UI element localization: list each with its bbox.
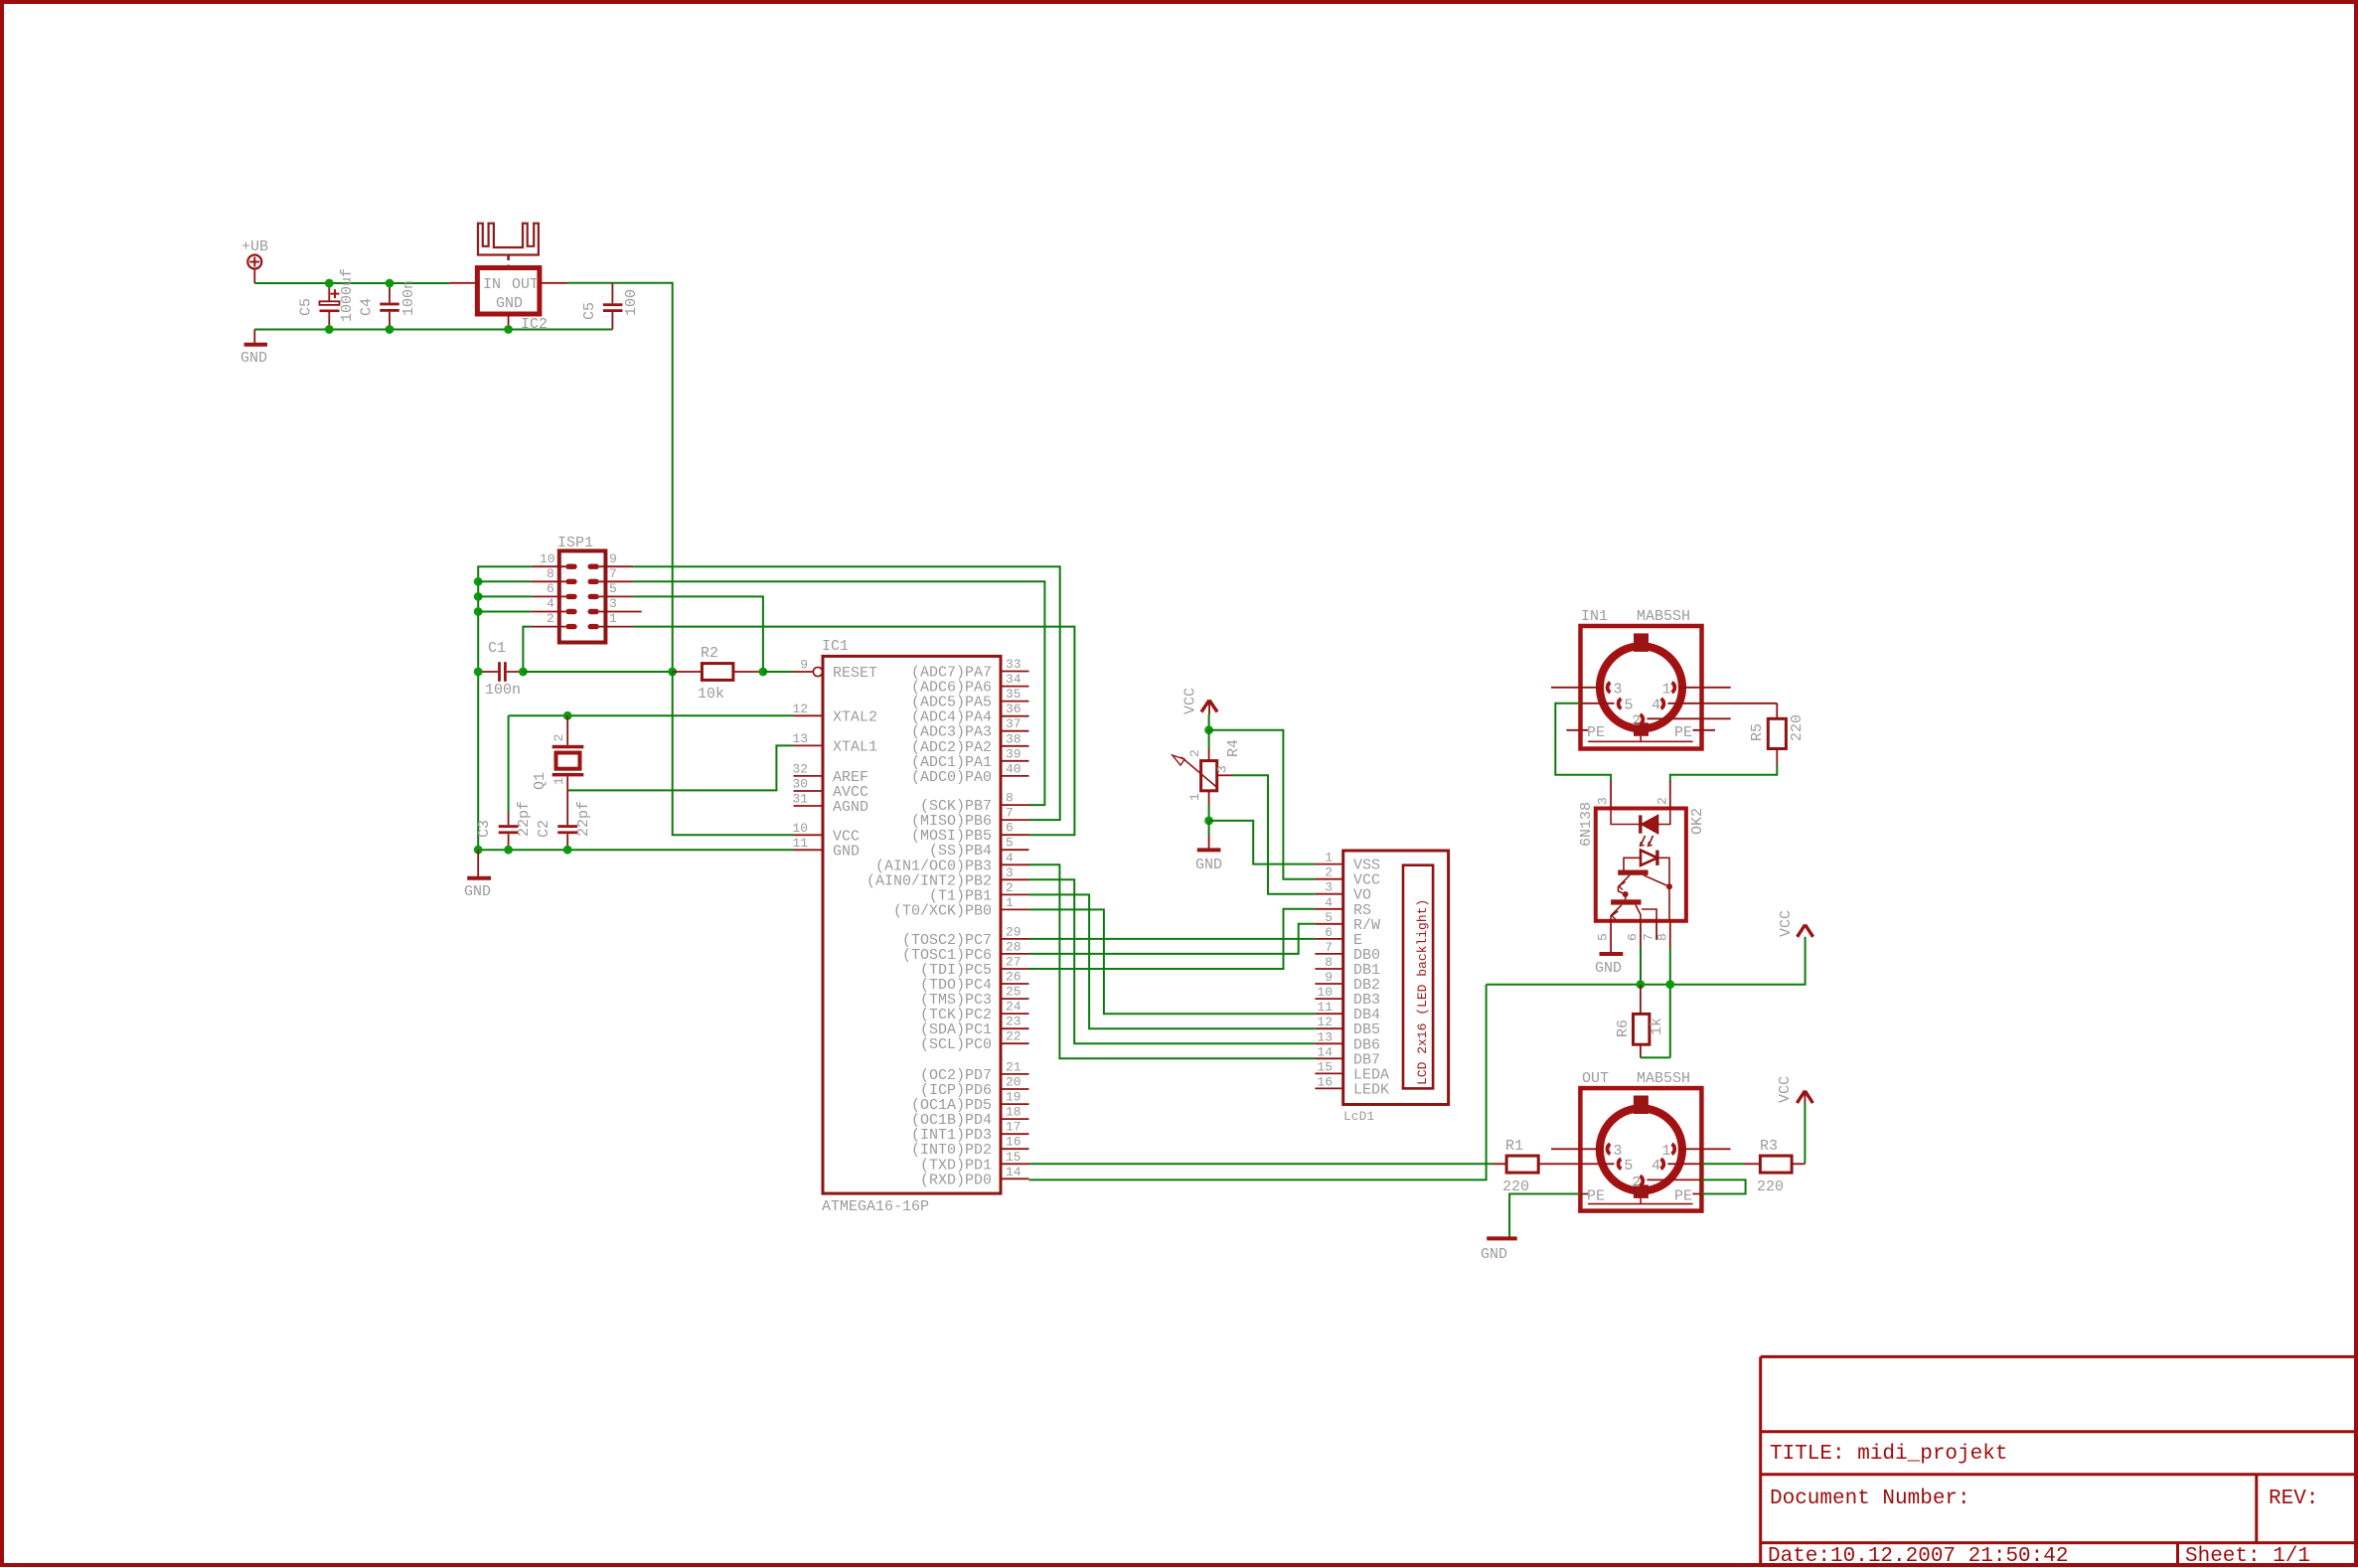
supply terminal +UB	[241, 238, 268, 283]
heatsink above IC2	[478, 224, 539, 268]
svg-text:RESET: RESET	[833, 665, 877, 682]
supply arrow VCC right of optocoupler	[1778, 910, 1813, 937]
svg-text:LEDK: LEDK	[1353, 1081, 1389, 1098]
wire regulator OUT to VCC corner	[567, 283, 673, 672]
svg-text:5: 5	[1325, 910, 1333, 925]
svg-text:Date:10.12.2007 21:50:42: Date:10.12.2007 21:50:42	[1768, 1545, 2068, 1568]
svg-text:8: 8	[1325, 955, 1333, 970]
svg-text:29: 29	[1006, 924, 1022, 939]
svg-text:17: 17	[1006, 1120, 1022, 1135]
svg-text:IC1: IC1	[822, 638, 849, 655]
ground symbol optocoupler pin5	[1595, 947, 1623, 977]
resistor R3 220	[1701, 1138, 1805, 1195]
svg-text:2: 2	[1325, 865, 1333, 880]
svg-text:12: 12	[792, 702, 808, 716]
svg-text:22: 22	[1006, 1029, 1022, 1044]
svg-text:PE: PE	[1674, 724, 1692, 741]
junction dot R4 VCC	[1204, 725, 1213, 734]
wire TXD to R1	[1029, 1163, 1493, 1165]
optocoupler OK2 6N138	[1578, 781, 1706, 947]
svg-text:TITLE: midi_projekt: TITLE: midi_projekt	[1770, 1443, 2007, 1466]
wire GND rail top-left	[254, 329, 612, 331]
wire VCC column to IC1 VCC pin	[673, 672, 794, 835]
svg-text:23: 23	[1006, 1015, 1022, 1029]
svg-text:37: 37	[1006, 716, 1022, 731]
wire IN1 pin5 to optocoupler anode	[1555, 704, 1611, 782]
svg-text:6: 6	[1325, 925, 1333, 940]
connector IN1 MAB5SH	[1551, 608, 1777, 749]
title text Document Number	[1770, 1488, 1970, 1510]
junction dots C4	[386, 279, 394, 334]
svg-text:C5: C5	[298, 298, 315, 316]
wire RXD to output net	[1029, 985, 1487, 1180]
svg-text:220: 220	[1757, 1178, 1784, 1195]
junction dot VCC RESET	[668, 668, 677, 677]
svg-text:12: 12	[1317, 1015, 1333, 1029]
junction dots output net	[1637, 980, 1675, 989]
svg-text:24: 24	[1006, 1000, 1022, 1015]
wire XTAL2 net	[509, 715, 794, 813]
capacitor C3 22pf	[476, 801, 533, 850]
svg-text:PE: PE	[1587, 1188, 1605, 1205]
svg-text:(T0/XCK)PB0: (T0/XCK)PB0	[893, 902, 992, 919]
junction dot R4 GND	[1204, 817, 1213, 826]
wire R4 bottom to LCD VSS	[1209, 821, 1316, 864]
svg-text:10: 10	[540, 551, 555, 566]
voltage regulator IC2	[449, 268, 567, 334]
svg-text:18: 18	[1006, 1105, 1022, 1120]
wire ISP pin2 to C1	[523, 627, 531, 672]
svg-text:GND: GND	[833, 843, 860, 860]
svg-text:10: 10	[792, 821, 808, 836]
svg-text:220: 220	[1789, 714, 1806, 741]
svg-text:VCC: VCC	[1777, 1076, 1794, 1103]
svg-text:2: 2	[1632, 713, 1641, 730]
svg-text:2: 2	[1006, 880, 1014, 895]
wire VCC to LCD pin2	[1209, 730, 1316, 879]
svg-text:4: 4	[1325, 895, 1333, 910]
junction dot regulator GND	[504, 325, 513, 334]
svg-text:MAB5SH: MAB5SH	[1637, 608, 1690, 625]
wire R5 to optocoupler cathode	[1670, 765, 1778, 782]
junction dot crystal XTAL2	[563, 711, 572, 720]
wire PB0 to LCD DB4	[1029, 909, 1316, 1014]
supply arrow VCC at OUT	[1777, 1076, 1812, 1103]
svg-text:XTAL1: XTAL1	[833, 738, 877, 755]
junction dots GND rail	[474, 846, 572, 855]
svg-text:20: 20	[1006, 1075, 1022, 1090]
svg-text:R2: R2	[701, 645, 718, 662]
svg-text:ATMEGA16-16P: ATMEGA16-16P	[822, 1198, 929, 1215]
svg-text:8: 8	[1006, 791, 1014, 806]
svg-text:3: 3	[1614, 681, 1623, 698]
crystal Q1	[532, 715, 583, 825]
svg-text:3: 3	[1215, 765, 1230, 773]
connector ISP1	[532, 535, 642, 643]
svg-text:6N138: 6N138	[1578, 802, 1595, 847]
svg-text:1: 1	[1662, 681, 1671, 698]
svg-text:9: 9	[800, 658, 808, 673]
svg-text:XTAL2: XTAL2	[833, 708, 877, 725]
svg-text:8: 8	[1655, 933, 1670, 941]
svg-text:2: 2	[1187, 749, 1202, 757]
wire PB1 to LCD DB5	[1029, 894, 1316, 1028]
wire optocoupler pin8 to R6 bottom	[1641, 947, 1670, 1057]
svg-text:AGND: AGND	[833, 799, 868, 816]
wire XTAL1 net	[567, 745, 793, 790]
svg-text:27: 27	[1006, 955, 1022, 970]
ground symbol top-left	[240, 330, 267, 368]
wire C1 to R2	[523, 671, 672, 673]
svg-text:(ADC0)PA0: (ADC0)PA0	[911, 769, 992, 786]
svg-text:1: 1	[1325, 851, 1333, 865]
svg-text:5: 5	[1596, 933, 1611, 941]
svg-text:26: 26	[1006, 970, 1022, 985]
svg-text:GND: GND	[1195, 857, 1222, 873]
svg-text:16: 16	[1006, 1135, 1022, 1150]
wire ISP pin9 to MISO	[633, 566, 1059, 820]
svg-text:22pf: 22pf	[575, 801, 592, 837]
svg-text:3: 3	[1325, 880, 1333, 895]
resistor R6 1k	[1615, 985, 1665, 1058]
svg-text:7: 7	[1325, 940, 1333, 955]
wire PC6 to LCD R/W	[1029, 924, 1316, 954]
svg-text:1: 1	[1661, 1143, 1670, 1160]
svg-text:7: 7	[609, 566, 617, 581]
wire ISP pin5 to RESET	[633, 596, 763, 672]
svg-text:PE: PE	[1587, 724, 1605, 741]
svg-text:LCD 2x16 (LED backlight): LCD 2x16 (LED backlight)	[1415, 899, 1430, 1085]
wire ISP pin6	[478, 595, 532, 597]
ground symbol below rail	[464, 850, 491, 900]
svg-text:39: 39	[1006, 746, 1022, 761]
svg-text:3: 3	[609, 596, 617, 611]
svg-text:40: 40	[1006, 761, 1022, 776]
svg-text:5: 5	[609, 581, 617, 596]
svg-text:R1: R1	[1505, 1138, 1523, 1155]
supply arrow VCC at R4	[1182, 688, 1218, 714]
svg-text:15: 15	[1006, 1150, 1022, 1165]
svg-text:9: 9	[609, 551, 617, 566]
svg-text:31: 31	[792, 792, 808, 807]
resistor R2 10k	[673, 645, 763, 703]
svg-text:R3: R3	[1760, 1138, 1778, 1155]
svg-text:Document Number:: Document Number:	[1770, 1488, 1970, 1510]
svg-text:7: 7	[1642, 933, 1656, 941]
ground symbol below OUT	[1481, 1238, 1517, 1263]
capacitor C5 100 at regulator output	[581, 283, 640, 330]
wire PC5 to LCD RS	[1029, 909, 1316, 969]
svg-text:11: 11	[792, 836, 808, 851]
svg-text:2: 2	[1655, 797, 1670, 805]
svg-text:5: 5	[1625, 698, 1634, 714]
svg-text:2: 2	[1632, 1175, 1641, 1191]
svg-text:22pf: 22pf	[516, 801, 533, 837]
ground symbol at R4	[1195, 821, 1222, 873]
wire OUT pin2 to PE	[1701, 1179, 1745, 1193]
wire OUT PE to ground	[1509, 1194, 1580, 1238]
svg-text:100: 100	[623, 289, 640, 316]
svg-text:25: 25	[1006, 985, 1022, 1000]
capacitor C2 22pf	[536, 801, 592, 850]
junction dots C1	[474, 668, 528, 677]
title text TITLE: midi_projekt	[1770, 1443, 2007, 1466]
svg-text:14: 14	[1006, 1165, 1022, 1179]
svg-text:3: 3	[1613, 1143, 1622, 1160]
svg-text:GND: GND	[1481, 1246, 1507, 1263]
svg-text:21: 21	[1006, 1059, 1022, 1074]
capacitor C4 100n	[359, 280, 418, 330]
svg-text:ISP1: ISP1	[557, 535, 593, 551]
LCD module LCD1	[1315, 851, 1448, 1124]
wire GND rail to IC1 GND pin	[478, 849, 793, 851]
resistor R1 220	[1493, 1138, 1580, 1195]
svg-text:MAB5SH: MAB5SH	[1637, 1070, 1690, 1087]
svg-text:10: 10	[1317, 985, 1333, 1000]
wire R4 wiper to LCD VO	[1217, 775, 1316, 893]
svg-text:2: 2	[547, 611, 554, 626]
wire VCC arrow to junction	[1208, 714, 1210, 730]
svg-text:GND: GND	[1595, 960, 1622, 977]
svg-text:IN1: IN1	[1581, 608, 1608, 625]
title text Sheet	[2185, 1545, 2310, 1568]
resistor R5 220	[1749, 704, 1806, 765]
title block frame	[1761, 1356, 2354, 1564]
wire ISP pin1 to MOSI	[633, 627, 1074, 836]
svg-text:C5: C5	[581, 302, 598, 320]
svg-text:4: 4	[1651, 1158, 1660, 1175]
wire PB3 to LCD DB7	[1029, 864, 1316, 1058]
svg-text:6: 6	[547, 581, 554, 596]
svg-text:(SCL)PC0: (SCL)PC0	[920, 1036, 992, 1053]
svg-text:36: 36	[1006, 702, 1022, 716]
wire optocoupler pin6 to output net	[1640, 947, 1642, 985]
svg-text:1k: 1k	[1649, 1018, 1665, 1035]
svg-text:4: 4	[547, 596, 554, 611]
wire ISP pin7 to SCK	[633, 581, 1044, 805]
svg-text:GND: GND	[464, 883, 491, 900]
wire +UB rail to regulator IN	[254, 282, 449, 284]
svg-text:100n: 100n	[400, 280, 417, 316]
wire output net RXD row	[1487, 937, 1806, 985]
capacitor C1 100n	[478, 640, 523, 699]
svg-text:16: 16	[1317, 1074, 1333, 1089]
svg-text:33: 33	[1006, 657, 1022, 672]
wire ISP pin10 to GND column	[478, 566, 532, 850]
title text REV	[2269, 1488, 2318, 1510]
svg-text:220: 220	[1502, 1178, 1529, 1195]
svg-text:13: 13	[792, 731, 808, 746]
svg-text:R5: R5	[1749, 723, 1766, 741]
svg-text:38: 38	[1006, 731, 1022, 746]
svg-text:2: 2	[551, 734, 566, 742]
microcontroller IC1 ATMEGA16-16P	[792, 638, 1028, 1215]
svg-text:4: 4	[1006, 851, 1014, 865]
svg-text:3: 3	[1596, 797, 1611, 805]
svg-text:32: 32	[792, 761, 808, 776]
wire ISP pin4	[478, 611, 532, 613]
svg-text:REV:: REV:	[2269, 1488, 2318, 1510]
svg-text:6: 6	[1626, 933, 1641, 941]
svg-text:VCC: VCC	[1182, 688, 1199, 714]
svg-text:5: 5	[1006, 836, 1014, 851]
svg-text:19: 19	[1006, 1090, 1022, 1105]
svg-text:IN: IN	[483, 276, 501, 293]
svg-text:30: 30	[792, 777, 808, 792]
svg-text:C1: C1	[488, 640, 506, 657]
svg-text:4: 4	[1651, 698, 1660, 714]
svg-text:13: 13	[1317, 1029, 1333, 1044]
wire PB2 to LCD DB6	[1029, 879, 1316, 1043]
svg-text:7: 7	[1006, 806, 1014, 821]
svg-text:OUT: OUT	[1582, 1070, 1609, 1087]
connector OUT MAB5SH	[1551, 1070, 1731, 1211]
svg-text:8: 8	[547, 566, 554, 581]
svg-text:9: 9	[1325, 970, 1333, 985]
svg-text:LcD1: LcD1	[1343, 1109, 1374, 1124]
svg-text:Sheet: 1/1: Sheet: 1/1	[2185, 1545, 2310, 1568]
svg-text:C2: C2	[536, 820, 552, 838]
trimmer R4	[1173, 730, 1242, 821]
svg-text:11: 11	[1317, 1000, 1333, 1015]
svg-text:R4: R4	[1225, 739, 1242, 757]
title text Date	[1768, 1545, 2068, 1568]
svg-text:15: 15	[1317, 1059, 1333, 1074]
svg-text:1: 1	[1187, 793, 1202, 801]
svg-text:VCC: VCC	[1778, 910, 1795, 937]
svg-text:35: 35	[1006, 687, 1022, 702]
junction dots ISP GND column	[474, 577, 483, 616]
svg-text:6: 6	[1006, 821, 1014, 836]
svg-text:GND: GND	[496, 295, 523, 312]
svg-text:(RXD)PD0: (RXD)PD0	[920, 1172, 992, 1188]
svg-text:IC2: IC2	[521, 316, 548, 333]
svg-text:14: 14	[1317, 1044, 1333, 1059]
svg-text:GND: GND	[240, 350, 267, 367]
svg-text:OUT: OUT	[512, 276, 539, 293]
svg-text:OK2: OK2	[1689, 808, 1706, 835]
svg-text:Q1: Q1	[532, 772, 549, 790]
svg-text:100n: 100n	[485, 682, 521, 699]
svg-text:3: 3	[1006, 865, 1014, 880]
svg-text:C3: C3	[476, 820, 493, 838]
wire PC7 to LCD E	[1029, 938, 1316, 940]
svg-text:1: 1	[1006, 895, 1014, 910]
svg-text:28: 28	[1006, 939, 1022, 954]
svg-text:34: 34	[1006, 672, 1022, 687]
wire ISP pin8	[478, 580, 532, 582]
wire R2 to RESET pin	[763, 671, 794, 673]
wire R3 to VCC arrow	[1804, 1103, 1806, 1164]
junction dots C5	[325, 279, 334, 334]
svg-text:1: 1	[609, 611, 617, 626]
capacitor C5 1000uf electrolytic	[298, 268, 357, 330]
svg-text:5: 5	[1624, 1158, 1633, 1175]
svg-text:1000uf: 1000uf	[339, 268, 356, 322]
svg-text:10k: 10k	[698, 686, 724, 703]
svg-text:R6: R6	[1615, 1019, 1632, 1037]
svg-text:+UB: +UB	[241, 238, 268, 255]
svg-text:1: 1	[551, 777, 566, 785]
svg-text:C4: C4	[359, 298, 376, 316]
junction dot R2 RESET	[759, 668, 768, 677]
svg-text:PE: PE	[1674, 1188, 1692, 1205]
